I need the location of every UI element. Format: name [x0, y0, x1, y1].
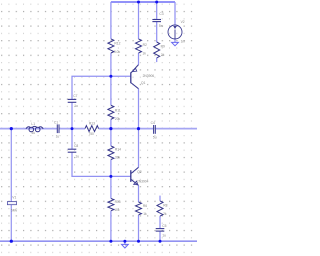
svg-text:1k: 1k	[142, 51, 146, 55]
svg-text:R14: R14	[115, 147, 121, 151]
wire top supply rail V+	[111, 1, 175, 3]
junction Q1 base wire / bias column	[109, 75, 112, 78]
svg-text:V1: V1	[12, 195, 16, 199]
svg-text:750: 750	[88, 132, 94, 136]
capacitor C1 (series in main net)	[54, 120, 60, 138]
svg-text:5u: 5u	[153, 135, 157, 139]
svg-text:C4: C4	[151, 121, 155, 125]
wire bias column x=110.9	[110, 2, 112, 241]
resistor R2	[136, 39, 147, 56]
inductor L1	[26, 122, 43, 135]
junction ground rail / bias column	[109, 240, 112, 243]
wire input source column x=11.3	[10, 129, 12, 242]
svg-text:V2: V2	[181, 20, 185, 24]
resistor R9	[154, 42, 165, 58]
resistor R13 (series in main net, horizontal)	[85, 122, 99, 136]
resistor R8	[157, 201, 168, 216]
svg-text:R11: R11	[115, 109, 121, 113]
resistor R12	[108, 39, 121, 54]
junction Q2 base wire / bias column	[109, 175, 112, 178]
svg-text:5n: 5n	[159, 24, 163, 28]
capacitor C7	[68, 94, 78, 108]
junction ground rail / C5	[159, 240, 162, 243]
resistor R14	[108, 146, 121, 160]
wire lower base wire from x=72 to Q2 base	[72, 153, 131, 177]
wire output column x=160	[159, 196, 161, 242]
junction main net / Q1-Q2 collectors	[137, 127, 140, 130]
ground at bottom rail	[122, 241, 129, 248]
svg-text:39k: 39k	[115, 156, 121, 160]
junction ground rail / ground symbol	[123, 240, 126, 243]
svg-text:20k: 20k	[115, 117, 121, 121]
transistor Q1 (pnp 2N3906)	[131, 65, 155, 89]
wire main horizontal net (input to output) y=128.6	[0, 128, 197, 130]
svg-text:5Mv: 5Mv	[11, 208, 18, 212]
svg-text:Q2: Q2	[137, 170, 142, 174]
current source V2	[168, 20, 185, 43]
junction main net / bias column	[109, 127, 112, 130]
transistor Q2 (npn 2N3904)	[131, 167, 149, 185]
capacitor C5	[156, 224, 167, 238]
wire current source drop x=175	[174, 2, 176, 42]
junction main net / input column	[10, 127, 13, 130]
ground under current source	[172, 42, 179, 45]
svg-text:R13: R13	[89, 122, 95, 126]
svg-text:Q1: Q1	[141, 81, 146, 85]
junction ground rail / input column	[10, 240, 13, 243]
wire feedback column x=72 with upper base wire	[72, 76, 131, 149]
svg-text:C7: C7	[73, 94, 77, 98]
svg-text:R12: R12	[114, 41, 120, 45]
svg-text:3.0k: 3.0k	[114, 50, 121, 54]
svg-text:C5: C5	[162, 224, 166, 228]
svg-text:C1: C1	[54, 120, 58, 124]
wire C3/R9 branch x=156.7	[156, 2, 158, 62]
svg-text:10k: 10k	[114, 208, 120, 212]
voltage source V1 (input)	[7, 195, 17, 212]
svg-text:1m: 1m	[181, 39, 186, 43]
svg-text:2N3906: 2N3906	[143, 74, 155, 78]
svg-text:R8: R8	[163, 203, 167, 207]
junction top rail / Q1 column	[137, 1, 140, 4]
svg-text:1u: 1u	[75, 154, 79, 158]
capacitor C3	[152, 12, 163, 28]
svg-text:1u: 1u	[74, 104, 78, 108]
capacitor C4 (series in main net)	[151, 121, 157, 140]
junction top rail / C3 branch	[155, 1, 158, 4]
svg-text:2N3904: 2N3904	[137, 180, 149, 184]
svg-text:R2: R2	[143, 43, 147, 47]
wire transistor column x=138.5	[138, 2, 140, 241]
svg-text:C3: C3	[159, 12, 163, 16]
svg-text:4u: 4u	[31, 131, 35, 135]
svg-text:2k: 2k	[163, 212, 167, 216]
svg-text:1u: 1u	[56, 135, 60, 139]
wire bottom ground rail	[0, 240, 197, 242]
resistor R11	[108, 105, 121, 121]
svg-text:R9: R9	[161, 45, 165, 49]
svg-text:R6: R6	[143, 204, 147, 208]
capacitor C8	[68, 144, 80, 158]
resistor R6	[136, 202, 148, 216]
svg-text:1k: 1k	[143, 212, 147, 216]
junction main net / feedback column	[71, 127, 74, 130]
svg-text:R15: R15	[115, 200, 121, 204]
resistor R15	[108, 198, 121, 212]
svg-text:2k: 2k	[161, 53, 165, 57]
junction ground rail / R6	[137, 240, 140, 243]
svg-text:C8: C8	[74, 144, 78, 148]
svg-text:L1: L1	[31, 122, 35, 126]
svg-text:1u: 1u	[162, 234, 166, 238]
